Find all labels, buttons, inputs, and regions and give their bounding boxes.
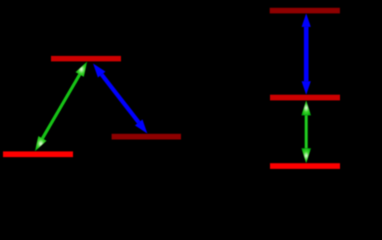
- level: left diagram ground state (bottom-left bar, bright red): [3, 151, 73, 157]
- green pump arrow (left diagram, double-headed diagonal): [35, 62, 87, 152]
- level: right diagram middle state (medium red): [270, 95, 340, 101]
- level: left diagram final state (middle-right bar, dark red): [112, 134, 181, 140]
- blue Stokes arrow (left diagram, double-headed diagonal): [93, 64, 147, 134]
- level: right diagram top state (dark red): [270, 8, 340, 14]
- level: right diagram bottom state (bright red): [270, 163, 340, 169]
- blue vertical double-headed arrow (right diagram, top gap): [302, 13, 311, 94]
- level: left diagram excited state (top bar, medium red): [51, 56, 121, 62]
- green vertical double-headed arrow (right diagram, bottom gap): [301, 100, 311, 163]
